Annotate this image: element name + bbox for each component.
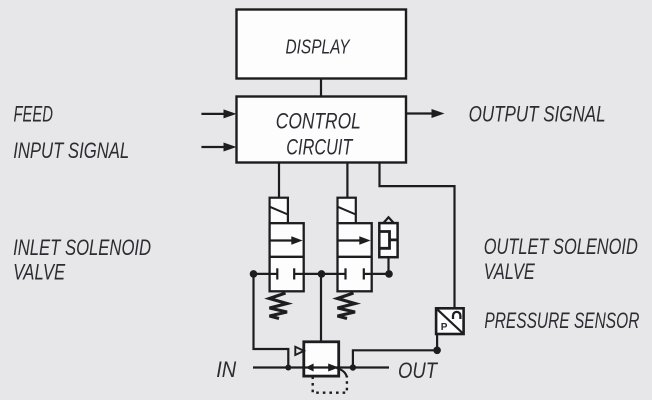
wire node A to valve V1 left [254,273,270,275]
label OUTLET SOLENOID VALVE [484,234,638,284]
wire valve V2 right to check valve node [372,273,389,275]
arrow OUTPUT SIGNAL output [406,109,445,118]
solenoid coil V1 [270,198,288,224]
label INLET SOLENOID VALVE [13,235,151,285]
pressure sensor P [436,308,464,334]
svg-text:P: P [441,322,448,333]
wire sensor junction up to sensor [436,334,438,350]
regulator valve (main) [304,342,339,376]
node D dot (IN junction) [285,365,291,371]
check valve (relief) [379,217,397,257]
node E dot (OUT junction) [350,364,356,370]
wire OUT line [339,366,389,368]
svg-text:OUTPUT SIGNAL: OUTPUT SIGNAL [469,102,606,127]
svg-text:INLET SOLENOID: INLET SOLENOID [13,235,151,260]
spring V2 [338,293,356,319]
svg-text:FEED: FEED [14,102,54,127]
pilot triangle (regulator actuator) [295,347,304,355]
svg-text:CIRCUIT: CIRCUIT [286,134,353,159]
valve body V1 (inlet solenoid valve) [270,223,304,291]
wire valve V1 right to valve V2 left [304,273,338,275]
svg-text:INPUT SIGNAL: INPUT SIGNAL [13,138,129,163]
wire node A down to IN line [254,274,289,368]
box CONTROL CIRCUIT [237,97,407,163]
node B dot (between valves) [318,270,326,278]
node F dot (sensor junction) [433,347,441,355]
svg-text:PRESSURE SENSOR: PRESSURE SENSOR [484,308,639,333]
svg-text:CONTROL: CONTROL [276,108,361,133]
svg-text:OUT: OUT [398,358,439,383]
wire check valve to node [387,257,389,274]
arrow INPUT SIGNAL input [201,143,236,152]
node A dot (valve V1 left) [250,270,258,278]
svg-text:DISPLAY: DISPLAY [286,36,351,59]
valve body V2 (outlet solenoid valve) [338,223,372,291]
wire OUT junction to sensor line [353,350,437,367]
node C dot (check valve) [385,270,393,278]
wire control to outlet solenoid [346,163,348,198]
wire display-control [320,79,322,97]
dashed pilot line [313,376,347,393]
svg-text:VALVE: VALVE [13,260,66,285]
solenoid coil V2 [338,198,356,224]
pilot curve from regulator [337,368,348,378]
svg-text:VALVE: VALVE [484,259,536,284]
spring V1 [270,293,288,319]
wire IN line [253,366,304,368]
svg-text:OUTLET SOLENOID: OUTLET SOLENOID [484,234,638,259]
wire control to pressure sensor (feedback) [380,163,455,308]
arrow FEED input [201,109,236,118]
wire node B down to regulator [320,274,322,342]
svg-text:IN: IN [216,357,237,382]
wire control to inlet solenoid [278,163,280,198]
box DISPLAY [237,10,407,79]
